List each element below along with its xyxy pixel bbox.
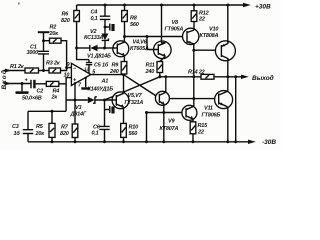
svg-text:+: + xyxy=(25,78,29,84)
svg-text:C5 1б: C5 1б xyxy=(94,61,109,68)
svg-text:+30В: +30В xyxy=(255,3,271,10)
svg-text:V1 Д814Б: V1 Д814Б xyxy=(87,54,111,60)
zener V2 xyxy=(102,34,109,41)
V11 base wire xyxy=(170,98,219,100)
svg-text:R7: R7 xyxy=(61,125,69,131)
svg-text:C2: C2 xyxy=(37,89,44,95)
svg-text:240: 240 xyxy=(145,69,155,75)
svg-text:R2: R2 xyxy=(50,25,57,31)
wire to V9 base xyxy=(147,112,183,114)
transistor V7 xyxy=(155,91,169,105)
svg-text:КТ808А: КТ808А xyxy=(200,33,219,39)
svg-text:0,1: 0,1 xyxy=(92,131,99,137)
svg-text:R10: R10 xyxy=(129,125,139,131)
diode V1 xyxy=(77,47,90,49)
svg-text:V5,V7: V5,V7 xyxy=(128,93,143,99)
op-amp output wire xyxy=(91,74,124,76)
svg-text:20к: 20к xyxy=(35,131,46,137)
svg-text:ГТ321А: ГТ321А xyxy=(125,100,144,106)
svg-text:560: 560 xyxy=(129,131,138,137)
resistor R8 xyxy=(123,4,126,7)
svg-text:V9: V9 xyxy=(168,119,175,125)
resistor R15 xyxy=(190,122,196,134)
op-amp pin7 ground xyxy=(85,77,87,87)
capacitor C4 xyxy=(104,4,107,7)
resistor R7 xyxy=(74,100,76,124)
transistor V8 xyxy=(183,28,199,44)
svg-text:R15: R15 xyxy=(198,123,209,129)
resistor R2 feedback xyxy=(44,40,50,42)
svg-text:V3: V3 xyxy=(75,105,81,111)
svg-text:А1: А1 xyxy=(101,79,109,85)
transistor V5 xyxy=(112,92,129,109)
load down-wire xyxy=(235,77,237,142)
op-amp A1 triangle xyxy=(71,63,91,85)
stub capacitor at V2 node xyxy=(105,26,109,28)
diagonal cross wires xyxy=(124,75,160,97)
wire R1-R3 xyxy=(39,70,50,72)
svg-text:240: 240 xyxy=(109,69,119,75)
resistor R10 xyxy=(121,123,127,137)
transistor V11 xyxy=(215,91,233,109)
svg-text:0,1: 0,1 xyxy=(91,16,98,22)
svg-text:C4: C4 xyxy=(91,10,98,16)
resistor R11 xyxy=(157,62,163,73)
capacitor C5 on pin 12 xyxy=(86,60,92,74)
resistor R3 xyxy=(49,68,61,73)
svg-text:К140УД1Б: К140УД1Б xyxy=(88,87,114,93)
svg-text:V11: V11 xyxy=(204,106,213,112)
svg-text:3000: 3000 xyxy=(27,50,39,56)
svg-text:R1 2к: R1 2к xyxy=(10,64,25,70)
svg-text:1б: 1б xyxy=(14,130,21,137)
sub-rail to C3 R5 xyxy=(28,110,66,112)
svg-text:R3 2к: R3 2к xyxy=(46,61,61,67)
ground chassis bar xyxy=(21,82,24,85)
transistor V4 xyxy=(113,41,129,57)
svg-text:R14 22: R14 22 xyxy=(188,70,205,76)
scan speck xyxy=(18,3,20,5)
capacitor C1 xyxy=(43,54,45,70)
diode V3 zener xyxy=(66,99,88,101)
svg-text:50,0×6В: 50,0×6В xyxy=(22,96,42,102)
transistor V10 xyxy=(194,49,222,52)
svg-text:Вход: Вход xyxy=(0,69,8,89)
svg-text:560: 560 xyxy=(130,22,139,28)
svg-text:R6: R6 xyxy=(62,12,70,18)
svg-text:Д814Г: Д814Г xyxy=(70,112,87,118)
transistor V6 xyxy=(154,41,172,59)
capacitor C6 xyxy=(99,126,109,129)
wire R3 to op-amp pin9 xyxy=(61,68,72,71)
svg-text:10: 10 xyxy=(64,73,70,79)
capacitor C3 xyxy=(27,111,29,129)
svg-text:R5: R5 xyxy=(36,124,44,130)
svg-text:R11: R11 xyxy=(146,63,155,69)
svg-text:Выход: Выход xyxy=(252,74,274,82)
svg-text:20к: 20к xyxy=(49,31,60,37)
svg-text:R8: R8 xyxy=(130,16,138,22)
resistor R5 xyxy=(51,111,53,123)
svg-text:22: 22 xyxy=(198,17,205,23)
resistor R14 xyxy=(201,74,214,79)
top +30V rail xyxy=(77,4,244,6)
base wire V8 xyxy=(125,36,187,38)
svg-text:820: 820 xyxy=(61,18,70,24)
svg-text:V8: V8 xyxy=(172,20,179,26)
svg-text:ГТ905А: ГТ905А xyxy=(165,27,184,33)
svg-text:R9: R9 xyxy=(112,63,120,69)
R6 down-wire xyxy=(76,22,78,49)
svg-text:КТ807А: КТ807А xyxy=(160,126,179,132)
bottom -30V rail xyxy=(28,141,249,143)
op-amp bias down-wire xyxy=(74,83,76,100)
resistor R4 xyxy=(46,81,59,86)
resistor R6 xyxy=(76,5,78,11)
svg-text:КТ605А: КТ605А xyxy=(130,46,149,52)
svg-text:V10: V10 xyxy=(209,27,218,33)
resistor R12 xyxy=(193,4,196,7)
input terminal 2 xyxy=(4,83,32,85)
svg-text:ГТ806Б: ГТ806Б xyxy=(202,113,221,119)
svg-text:КС133А: КС133А xyxy=(84,35,103,41)
svg-text:V4,V6: V4,V6 xyxy=(133,40,148,46)
svg-text:22: 22 xyxy=(197,130,204,136)
resistor R1 xyxy=(25,68,39,73)
svg-text:820: 820 xyxy=(60,131,69,137)
svg-text:R12: R12 xyxy=(199,11,209,17)
svg-text:2к: 2к xyxy=(51,95,59,101)
transistor V9 xyxy=(182,105,197,120)
input terminal 1 xyxy=(4,70,26,72)
svg-text:-30В: -30В xyxy=(262,139,276,146)
wire R4 to op-amp pin10 and down xyxy=(59,78,72,84)
output rail xyxy=(160,76,242,78)
svg-text:C3: C3 xyxy=(12,124,19,130)
C6 chain with stub capacitor xyxy=(104,100,106,126)
resistor R9 xyxy=(121,62,127,75)
